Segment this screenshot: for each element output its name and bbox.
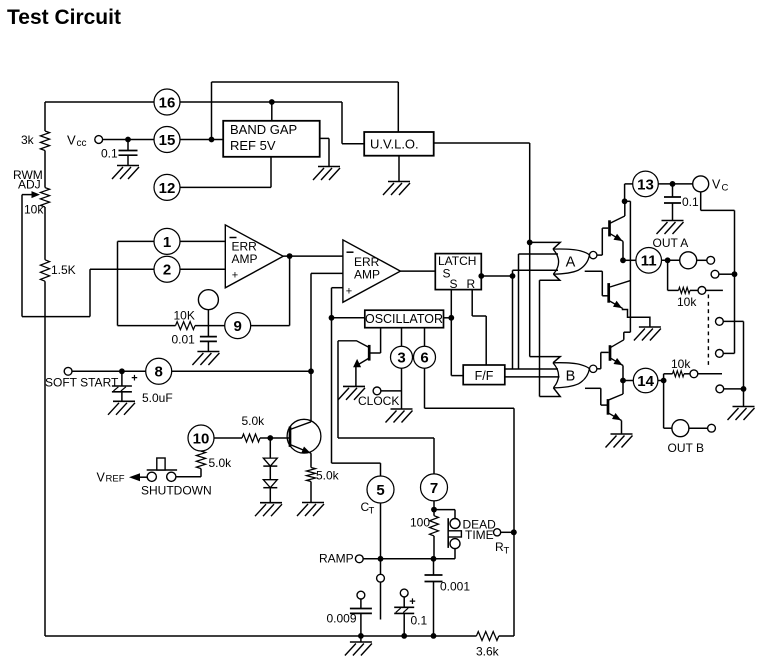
svg-text:5.0uF: 5.0uF	[142, 391, 173, 405]
svg-text:10K: 10K	[174, 309, 195, 323]
svg-text:BAND GAP: BAND GAP	[230, 122, 297, 137]
svg-text:14: 14	[637, 373, 654, 390]
svg-text:10k: 10k	[677, 295, 697, 309]
svg-text:SOFT START: SOFT START	[45, 376, 119, 390]
svg-text:cc: cc	[77, 138, 87, 149]
svg-text:B: B	[566, 368, 576, 384]
svg-text:2: 2	[163, 262, 171, 279]
svg-text:CLOCK: CLOCK	[358, 394, 399, 408]
svg-text:U.V.L.O.: U.V.L.O.	[370, 137, 419, 152]
svg-text:16: 16	[159, 94, 176, 111]
svg-text:15: 15	[159, 132, 176, 149]
svg-text:REF: REF	[106, 474, 125, 485]
svg-text:T: T	[504, 546, 510, 557]
svg-text:+: +	[131, 373, 137, 385]
svg-text:T: T	[369, 506, 375, 517]
svg-text:5.0k: 5.0k	[209, 456, 233, 470]
svg-text:10k: 10k	[24, 203, 44, 217]
svg-text:OUT B: OUT B	[668, 441, 704, 455]
svg-text:TIME: TIME	[465, 528, 494, 542]
svg-text:C: C	[722, 183, 729, 194]
svg-text:R: R	[467, 277, 476, 291]
svg-text:V: V	[97, 471, 106, 485]
svg-text:+: +	[232, 269, 238, 281]
svg-text:7: 7	[430, 480, 438, 497]
svg-text:0.1: 0.1	[411, 614, 428, 628]
svg-text:+: +	[409, 596, 415, 608]
svg-text:REF 5V: REF 5V	[230, 138, 276, 153]
svg-text:3: 3	[397, 350, 405, 367]
svg-text:AMP: AMP	[232, 252, 258, 266]
svg-text:12: 12	[159, 180, 176, 197]
svg-text:RAMP: RAMP	[319, 552, 354, 566]
svg-text:8: 8	[155, 364, 163, 381]
svg-text:V: V	[67, 133, 76, 148]
svg-text:3.6k: 3.6k	[476, 645, 500, 659]
svg-text:6: 6	[420, 350, 428, 367]
svg-text:11: 11	[641, 253, 657, 270]
svg-text:13: 13	[637, 176, 654, 193]
svg-text:A: A	[566, 255, 576, 271]
svg-text:1: 1	[163, 234, 171, 251]
svg-text:10k: 10k	[671, 357, 691, 371]
svg-text:OUT A: OUT A	[653, 236, 689, 250]
svg-text:Test Circuit: Test Circuit	[7, 6, 121, 29]
svg-text:5.0k: 5.0k	[316, 469, 340, 483]
svg-text:OSCILLATOR: OSCILLATOR	[365, 312, 443, 326]
svg-text:F/F: F/F	[475, 369, 494, 383]
svg-text:0.009: 0.009	[327, 612, 357, 626]
svg-text:100: 100	[410, 516, 430, 530]
svg-text:AMP: AMP	[354, 268, 380, 282]
svg-text:SHUTDOWN: SHUTDOWN	[141, 484, 212, 498]
svg-text:10: 10	[193, 430, 210, 447]
svg-text:0.001: 0.001	[440, 580, 470, 594]
svg-text:V: V	[712, 178, 721, 192]
svg-text:0.1: 0.1	[682, 195, 699, 209]
svg-text:9: 9	[234, 318, 242, 335]
svg-text:5: 5	[376, 482, 384, 499]
svg-text:1.5K: 1.5K	[51, 263, 76, 277]
svg-text:5.0k: 5.0k	[242, 414, 266, 428]
svg-text:0.1: 0.1	[101, 147, 118, 161]
svg-text:0.01: 0.01	[172, 333, 196, 347]
svg-text:ADJ: ADJ	[18, 178, 41, 192]
svg-text:3k: 3k	[21, 133, 35, 147]
svg-text:S: S	[450, 277, 458, 291]
svg-text:+: +	[346, 286, 352, 298]
